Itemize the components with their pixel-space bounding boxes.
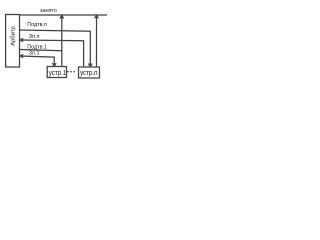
dots between devices [67,71,69,73]
wire Зп.п [20,40,84,67]
svg-text:устр.1: устр.1 [49,70,67,77]
arrow up busy device1 [60,16,64,19]
busy drop wire device 1 [61,16,63,67]
svg-text:Подтв.1: Подтв.1 [27,44,47,50]
busy bus wire [20,14,108,16]
wire Подтв.п horizontal [20,30,91,66]
svg-text:Подтв.п: Подтв.п [27,22,47,28]
arrow left Зп.п into arbiter [20,38,23,41]
arrow down Зп.1 into устр.1 [52,63,56,66]
svg-text:занято: занято [40,8,57,14]
svg-text:устр.п: устр.п [80,70,98,77]
arrow down Подтв.п into устр.п [88,64,92,67]
device box устр.п [79,67,100,78]
arrow left Зп.1 into arbiter [20,54,23,57]
wire Подтв.1 horizontal [20,50,62,51]
arbiter box [6,15,20,68]
arrow up busy device n [95,15,99,18]
device box устр.1 [47,67,66,78]
wire Зп.1 [20,56,54,66]
busy drop wire device n [96,15,98,67]
svg-text:Арбитр: Арбитр [11,26,17,46]
svg-text:Зп.1: Зп.1 [29,51,40,57]
svg-text:Зп.п: Зп.п [29,34,40,40]
